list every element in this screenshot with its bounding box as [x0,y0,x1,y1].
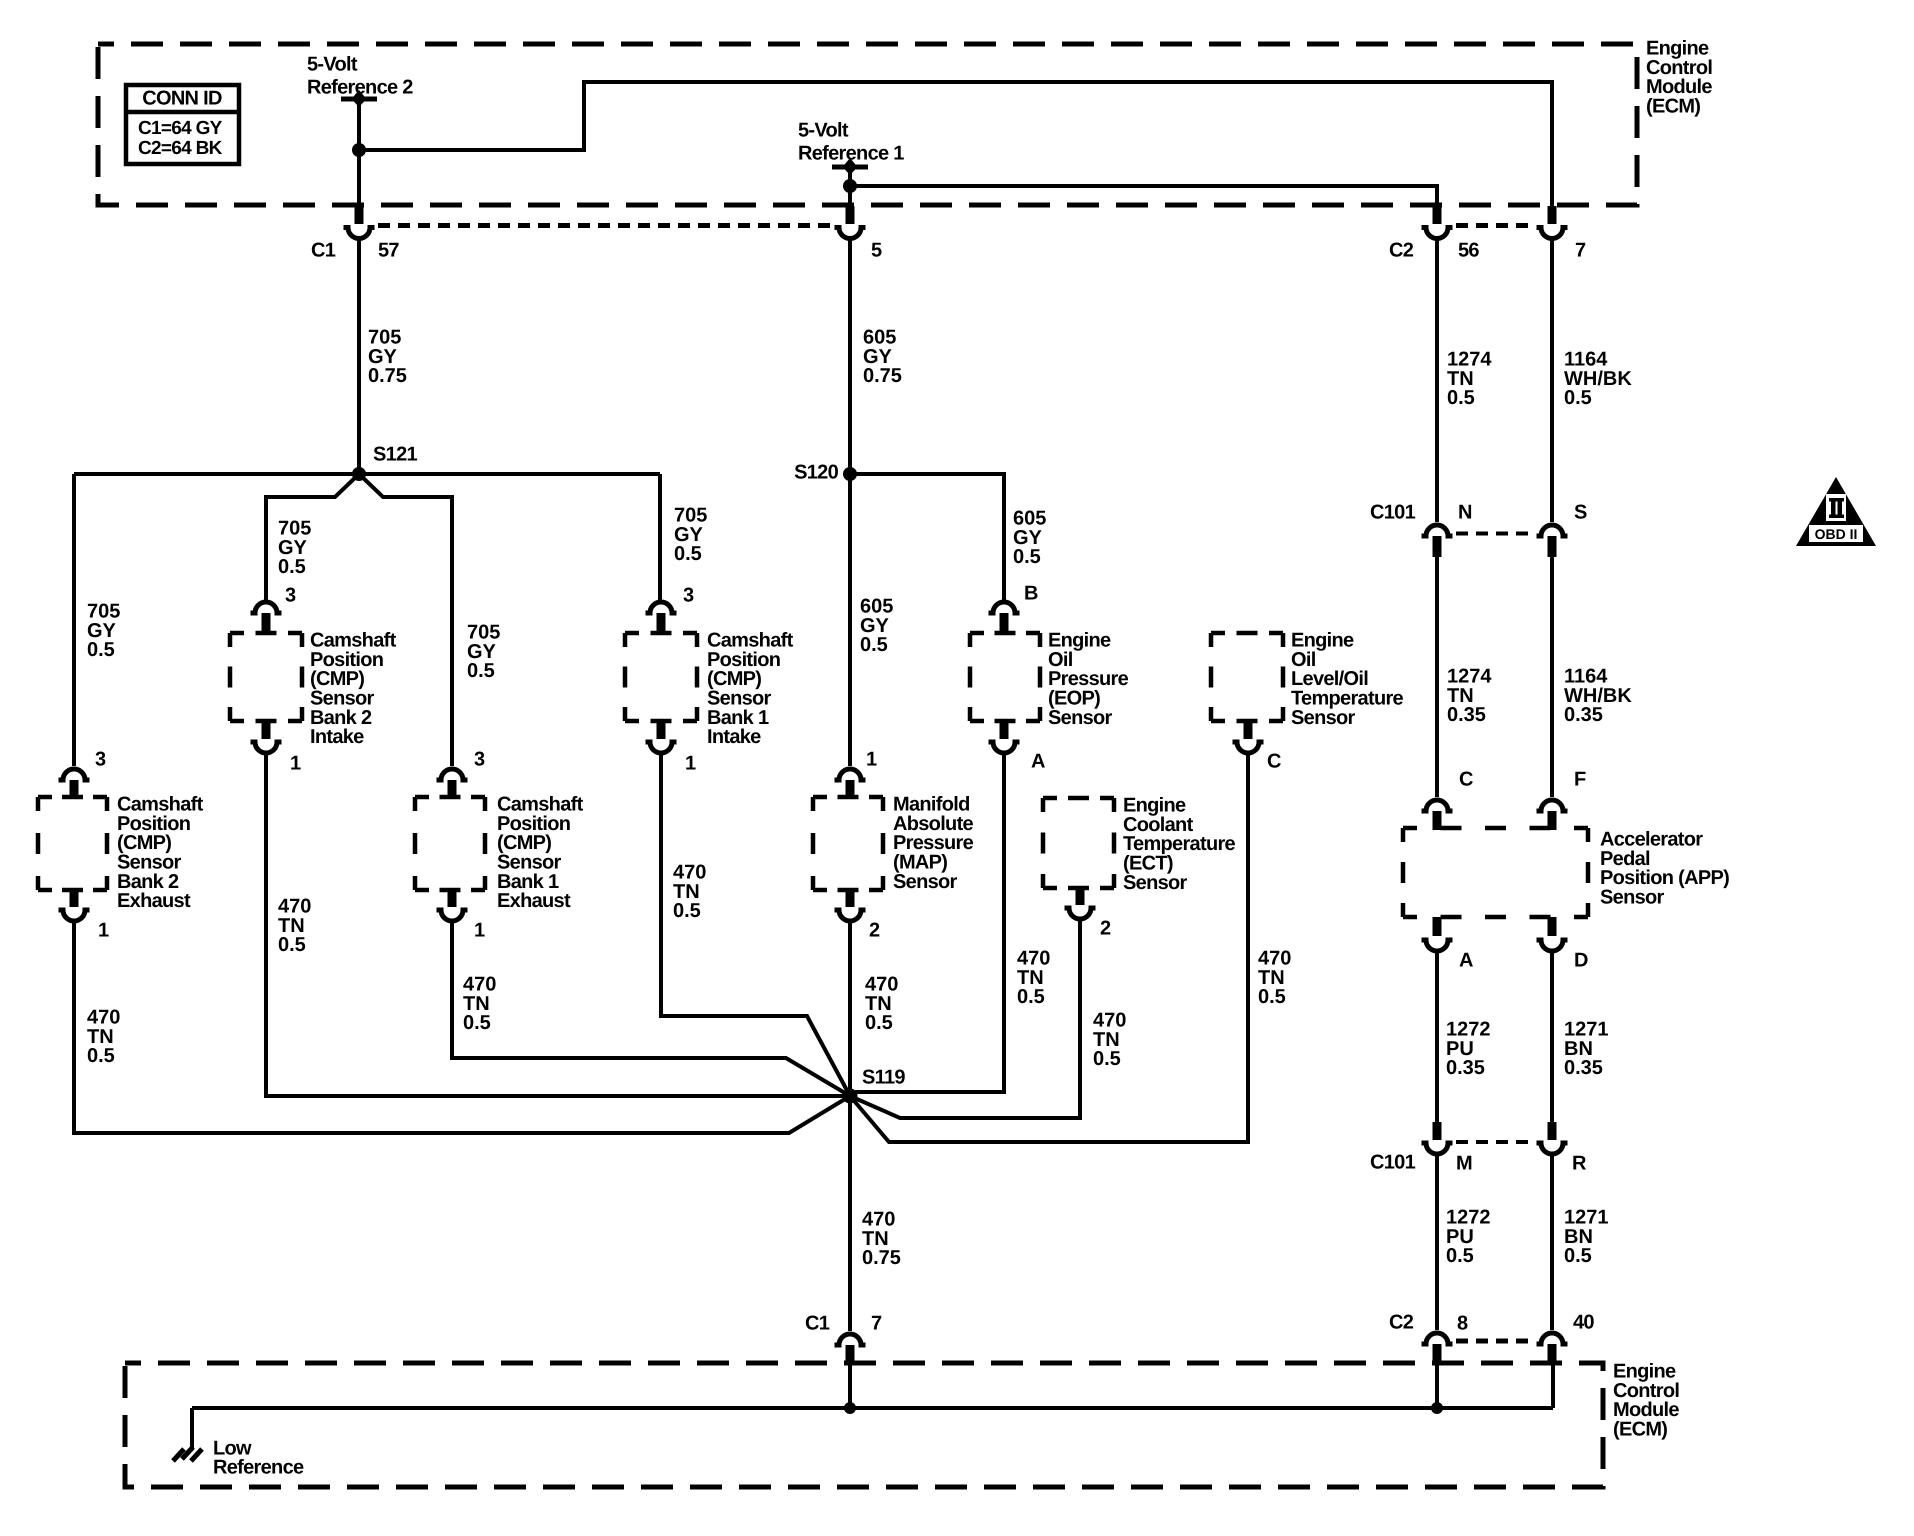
label pin 2 (MAP) [869,920,880,942]
svg-text:2: 2 [1100,918,1111,940]
svg-text:3: 3 [95,749,106,771]
connector C1 pin 5 [835,206,866,239]
svg-text:1: 1 [474,920,485,942]
sensor CMP Bank 1 Exhaust box [415,797,485,890]
svg-text:C101: C101 [1370,502,1416,524]
wire C1-7 into module [848,1363,852,1408]
svg-text:3: 3 [285,585,296,607]
svg-text:0.5: 0.5 [673,900,701,922]
connector C2 pin 56 [1422,206,1453,239]
wire S121 bus [74,472,660,476]
label 705 GY 0.5 (Bank1 Intake) [674,505,707,566]
label 470 TN 0.5 (Oil Level) [1258,948,1291,1009]
sensor Engine Oil Level/Oil Temperature box [1211,633,1283,721]
connector line C2 bottom dotted [1456,1339,1533,1344]
wire 470 TN 0.5 EOP to S119 [855,753,1004,1092]
wire 605 GY 0.75 (C1-5 to S120) [848,237,852,474]
label pin B (EOP) [1024,583,1038,605]
node ref2 junction [352,143,366,157]
sensor MAP box [813,797,883,890]
wire 1274 TN 0.5 (C2-56 to C101-N) [1435,237,1439,522]
sensor Accelerator Pedal Position box [1403,828,1588,917]
node S120 [843,467,857,481]
label pin D (APP) [1574,950,1588,972]
connector C101 pin M [1422,1122,1453,1154]
svg-text:1: 1 [866,749,877,771]
wire C2-40 into module [1551,1363,1555,1408]
svg-text:0.5: 0.5 [87,639,115,661]
wire S121 to Bank1 Exhaust branch [359,474,452,766]
connector CMP Bank1 Exhaust pin 3 [437,769,468,798]
label Engine Control Module (ECM) bottom right [1613,1361,1679,1441]
label C101 N S [1370,502,1587,524]
label Camshaft Position (CMP) Sensor Bank 1 Intake [707,630,794,749]
svg-text:S121: S121 [373,444,417,466]
label Camshaft Position (CMP) Sensor Bank 1 Exhaust [497,794,584,913]
wire ref1 vertical to C1-5 [848,170,852,222]
svg-text:C2: C2 [1389,1312,1414,1334]
svg-text:0.5: 0.5 [1013,546,1041,568]
connector CMP Bank2 Exhaust pin 3 [59,769,90,798]
svg-text:0.75: 0.75 [862,1247,901,1269]
wire S120 to EOP [850,474,1004,600]
node ref1 junction [843,179,857,193]
svg-text:5: 5 [871,240,882,262]
label 1272 PU 0.5 [1446,1207,1491,1268]
svg-text:D: D [1574,950,1588,972]
connector MAP pin 1 [835,769,866,798]
label 1164 WH/BK 0.5 [1564,349,1632,410]
svg-text:1: 1 [98,920,109,942]
wire 705 GY 0.75 (C1-57 to S121) [357,237,361,474]
wire ref2 to pin7 run [359,82,1552,210]
label pin 2 (ECT) [1100,918,1111,940]
wire S120 to MAP [848,474,852,766]
label 470 TN 0.5 (B1 Exhaust) [463,974,496,1035]
label C1 7 (bottom) [805,1313,882,1335]
label 705 GY 0.5 (Bank1 Exhaust) [467,622,500,683]
label pin 3 (B1 Intake) [683,585,694,607]
label 705 GY 0.5 (Bank2 Exhaust) [87,601,120,662]
svg-text:0.5: 0.5 [1258,986,1286,1008]
label 1164 WH/BK 0.35 [1564,666,1632,727]
connector C2 pin 7 [1537,206,1568,239]
label C2 8 40 [1389,1312,1594,1335]
svg-text:S119: S119 [862,1067,905,1089]
sensor CMP Bank 2 Intake box [230,633,302,721]
label pin 3 (B2 Exhaust) [95,749,106,771]
label pin A (EOP) [1031,751,1045,773]
wire 470 TN 0.5 MAP to S119 [848,921,852,1096]
label Engine Coolant Temperature (ECT) Sensor [1123,795,1236,894]
label 705 GY 0.75 [368,327,407,388]
connector CMP Bank1 Exhaust pin 1 [437,890,468,921]
wire 470 TN 0.75 S119 to C1-7 [848,1096,852,1331]
label 470 TN 0.5 (B1 Intake) [673,862,706,923]
svg-text:0.5: 0.5 [860,634,888,656]
label 470 TN 0.5 (B2 Intake) [278,896,311,957]
label S121 [373,444,417,466]
svg-text:0.5: 0.5 [1564,1245,1592,1267]
sensor CMP Bank 2 Exhaust box [38,797,107,890]
label 470 TN 0.5 (B2 Exhaust) [87,1007,120,1068]
sensor Engine Oil Pressure box [970,633,1040,721]
wire 470 TN 0.5 ECT to S119 [850,920,1080,1118]
svg-text:0.5: 0.5 [1447,387,1475,409]
svg-text:A: A [1031,751,1045,773]
label pin C (Oil Level) [1267,751,1281,773]
wire S121 to Bank2 Intake [266,474,359,600]
svg-text:40: 40 [1573,1312,1594,1334]
svg-text:0.35: 0.35 [1564,704,1603,726]
wire 470 TN 0.5 Bank2 Exhaust to S119 [74,921,850,1133]
label pin 1 (B1 Intake) [685,753,696,775]
svg-text:A: A [1459,950,1473,972]
svg-text:0.5: 0.5 [463,1012,491,1034]
label 470 TN 0.5 (MAP) [865,974,898,1035]
terminal 5-Volt Reference 1 [832,158,868,175]
svg-text:8: 8 [1457,1313,1468,1335]
label 470 TN 0.75 [862,1209,901,1270]
connector C1 pin 7 (bottom) [835,1334,866,1364]
label pin A (APP) [1459,950,1473,972]
svg-text:B: B [1024,583,1038,605]
connector line C101 M-R dotted [1456,1140,1533,1144]
svg-text:F: F [1574,769,1586,791]
CONN ID table [126,85,239,164]
svg-text:5-Volt: 5-Volt [798,120,849,142]
wire 1274 TN 0.35 (C101-N to APP-C) [1435,556,1439,797]
label pin 1 (B2 Intake) [290,753,301,775]
svg-text:0.5: 0.5 [1017,986,1045,1008]
wire S121 left drop (Bank2 Exhaust) [72,474,76,766]
wire low reference bus [192,1406,1553,1410]
OBD II symbol [1796,477,1876,546]
label 1274 TN 0.35 [1447,666,1492,727]
sensor CMP Bank 1 Intake box [625,633,697,721]
connector line C101 N-S dotted [1456,532,1533,536]
svg-text:Sensor: Sensor [1291,707,1356,729]
connector CMP Bank2 Intake pin 1 [251,721,282,753]
wire 1271 BN 0.35 (APP-D to C101-R) [1550,950,1554,1122]
connector APP pin A [1422,917,1453,951]
wire 470 TN 0.5 Bank2 Intake to S119 [266,753,843,1096]
wire S121 right drop (Bank1 Intake) [658,474,662,600]
label 1272 PU 0.35 [1446,1019,1491,1080]
svg-text:C: C [1459,769,1473,791]
svg-text:Intake: Intake [707,726,761,748]
label pin F (APP) [1574,769,1586,791]
node S121 [352,467,366,481]
label pin C (APP) [1459,769,1473,791]
label Low Reference [213,1438,304,1479]
svg-text:0.35: 0.35 [1564,1057,1603,1079]
wire 1272 PU 0.5 (C101-M to C2-8) [1435,1154,1439,1330]
node S119 [843,1089,858,1104]
wire ground drop [190,1408,194,1450]
label Engine Oil Level/Oil Temperature Sensor [1291,630,1404,729]
svg-text:C1=64 GY: C1=64 GY [138,118,223,139]
svg-text:57: 57 [378,240,399,262]
connector CMP Bank1 Intake pin 3 [646,602,677,634]
svg-text:0.5: 0.5 [278,556,306,578]
label 605 GY 0.5 (EOP) [1013,508,1046,569]
svg-text:0.5: 0.5 [1093,1048,1121,1070]
svg-text:0.35: 0.35 [1447,704,1486,726]
ECM top module dashed box [98,44,1637,205]
svg-text:Sensor: Sensor [1048,707,1113,729]
svg-text:Exhaust: Exhaust [117,890,191,912]
wire ref1 to pin56 run [850,186,1437,210]
connector CMP Bank1 Intake pin 1 [646,721,677,753]
svg-text:Sensor: Sensor [1600,887,1665,909]
terminal 5-Volt Reference 2 [341,90,377,107]
label S119 [862,1067,905,1089]
svg-text:3: 3 [683,585,694,607]
label 1274 TN 0.5 [1447,349,1492,410]
svg-text:(ECM): (ECM) [1646,96,1700,118]
label 470 TN 0.5 (EOP) [1017,948,1050,1009]
svg-text:0.5: 0.5 [1564,387,1592,409]
wire C2-8 into module [1435,1363,1439,1408]
svg-text:0.75: 0.75 [368,365,407,387]
label pin 3 (B2 Intake) [285,585,296,607]
svg-text:2: 2 [869,920,880,942]
label Camshaft Position (CMP) Sensor Bank 2 Exhaust [117,794,204,913]
connector APP pin C [1422,800,1453,830]
label C2 56 7 [1389,240,1586,262]
svg-text:M: M [1456,1153,1472,1175]
ECM bottom module dashed box [125,1363,1603,1487]
svg-text:56: 56 [1458,240,1479,262]
svg-text:0.5: 0.5 [467,660,495,682]
svg-text:1: 1 [290,753,301,775]
svg-text:C: C [1267,751,1281,773]
svg-text:C101: C101 [1370,1152,1416,1174]
label 5-Volt Reference 1 [798,120,904,165]
node bus junction at C1-7 [844,1402,856,1414]
wire 1271 BN 0.5 (C101-R to C2-40) [1550,1154,1554,1330]
label Engine Oil Pressure (EOP) Sensor [1048,630,1129,729]
svg-text:Reference: Reference [213,1457,304,1479]
svg-text:1: 1 [685,753,696,775]
wire 1164 WH/BK 0.5 (C2-7 to C101-S) [1550,237,1554,522]
connector Oil Level pin C [1233,721,1264,753]
wire 1164 WH/BK 0.35 (C101-S to APP-F) [1550,556,1554,797]
connector CMP Bank2 Intake pin 3 [251,602,282,634]
connector APP pin F [1537,800,1568,830]
label 1271 BN 0.5 [1564,1207,1609,1268]
label 5-Volt Reference 2 [307,54,413,99]
svg-text:C1: C1 [805,1313,830,1335]
label 1271 BN 0.35 [1564,1019,1609,1080]
svg-text:Intake: Intake [310,726,364,748]
connector C101 pin S [1537,525,1568,557]
label 470 TN 0.5 (ECT) [1093,1010,1126,1071]
svg-text:7: 7 [871,1313,882,1335]
svg-text:Sensor: Sensor [893,871,958,893]
connector MAP pin 2 [835,890,866,921]
label pin 1 (B1 Exhaust) [474,920,485,942]
svg-text:OBD II: OBD II [1815,526,1858,542]
svg-text:Sensor: Sensor [1123,872,1188,894]
svg-text:0.75: 0.75 [863,365,902,387]
wire 470 TN 0.5 Bank1 Exhaust to S119 [452,921,850,1096]
svg-text:R: R [1572,1153,1587,1175]
svg-text:7: 7 [1575,240,1586,262]
svg-text:0.5: 0.5 [278,934,306,956]
label S120 [794,462,838,484]
connector APP pin D [1537,917,1568,951]
connector C2 pin 40 [1537,1333,1568,1364]
svg-text:0.5: 0.5 [674,543,702,565]
svg-text:CONN ID: CONN ID [142,88,222,110]
svg-text:S120: S120 [794,462,838,484]
connector line C1 dotted [378,223,831,228]
connector EOP pin B [989,602,1020,634]
label 705 GY 0.5 (Bank2 Intake) [278,518,311,579]
svg-text:(ECM): (ECM) [1613,1419,1667,1441]
svg-text:0.35: 0.35 [1446,1057,1485,1079]
label pin 3 (B1 Exhaust) [474,749,485,771]
connector C101 pin R [1537,1122,1568,1154]
svg-text:0.5: 0.5 [1446,1245,1474,1267]
svg-text:C2=64 BK: C2=64 BK [138,138,223,159]
node bus junction at C2-8 [1431,1402,1443,1414]
label pin 1 (B2 Exhaust) [98,920,109,942]
connector EOP pin A [989,721,1020,753]
svg-text:C2: C2 [1389,240,1414,262]
ground chassis symbol [173,1447,202,1461]
label pin 1 (MAP) [866,749,877,771]
svg-text:0.5: 0.5 [87,1045,115,1067]
label Engine Control Module (ECM) top right [1646,38,1712,118]
wire 1272 PU 0.35 (APP-A to C101-M) [1435,950,1439,1122]
label Manifold Absolute Pressure (MAP) Sensor [893,794,974,893]
sensor ECT box [1043,798,1114,888]
connector C2 pin 8 [1422,1333,1453,1364]
label 605 GY 0.75 [863,327,902,388]
connector ECT pin 2 [1065,888,1096,919]
wire 470 TN 0.5 Oil Level to S119 [850,753,1248,1142]
connector C101 pin N [1422,525,1453,557]
label pin 5 [871,240,882,262]
svg-text:5-Volt: 5-Volt [307,54,358,76]
svg-text:3: 3 [474,749,485,771]
svg-text:C1: C1 [311,240,336,262]
svg-text:N: N [1458,502,1472,524]
svg-text:S: S [1574,502,1587,524]
label C1 57 [311,240,399,262]
connector CMP Bank2 Exhaust pin 1 [59,890,90,921]
svg-text:0.5: 0.5 [865,1012,893,1034]
wire ref2 vertical to C1-57 [357,102,361,222]
label Camshaft Position (CMP) Sensor Bank 2 Intake [310,630,397,749]
connector line C2 dotted [1456,223,1533,228]
svg-text:Exhaust: Exhaust [497,890,571,912]
connector C1 pin 57 [344,206,375,239]
wire 470 TN 0.5 Bank1 Intake to S119 [661,753,850,1096]
label C101 M R [1370,1152,1587,1175]
label 605 GY 0.5 (MAP) [860,596,893,657]
label Accelerator Pedal Position (APP) Sensor [1600,829,1729,909]
